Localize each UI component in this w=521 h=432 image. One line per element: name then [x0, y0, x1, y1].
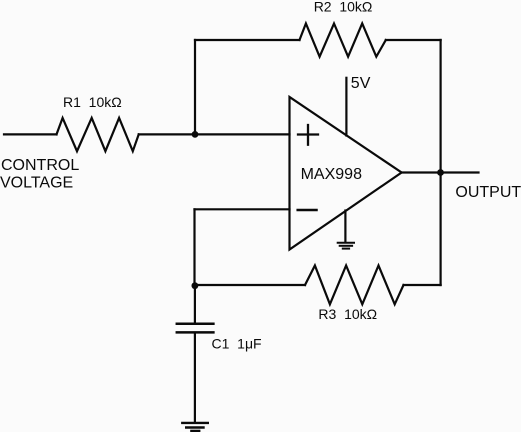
resistor R1 — [57, 118, 139, 151]
wire: left corner down to node C (C1/R3 junction) — [193, 209, 195, 285]
wire: C1 bottom plate to ground — [194, 334, 196, 423]
junction dot: output node — [437, 169, 444, 176]
svg-text:MAX998: MAX998 — [301, 166, 362, 183]
wire: inverting input to left corner — [195, 208, 290, 210]
junction dot: node C (C1 / R3) — [192, 282, 199, 289]
svg-text:R1 10kΩ: R1 10kΩ — [63, 94, 122, 110]
op-amp U1 MAX998 triangle — [290, 97, 402, 250]
wire: R1 to op-amp non-inverting input (node IN+) — [139, 133, 290, 135]
wire: node IN+ up to feedback rail — [194, 40, 196, 134]
minus sign: inverting input marker — [298, 209, 317, 212]
wire: control-voltage input to R1 — [4, 133, 57, 135]
wire: node C down to capacitor C1 — [194, 286, 196, 323]
capacitor C1 plates — [177, 324, 214, 333]
wire: node C to R3 — [195, 284, 306, 286]
wire: right vertical rail (output net) — [440, 40, 442, 285]
svg-text:R2 10kΩ: R2 10kΩ — [314, 0, 373, 14]
svg-text:5V: 5V — [351, 75, 371, 92]
svg-text:OUTPUT: OUTPUT — [455, 184, 521, 201]
wire: op-amp V- pin to ground — [344, 211, 346, 243]
resistor R2 — [300, 24, 386, 57]
svg-text:R3 10kΩ: R3 10kΩ — [318, 306, 377, 322]
resistor R3 — [305, 266, 404, 305]
plus sign: non-inverting input marker — [298, 125, 318, 145]
junction dot: node IN+ (R1 / R2 feedback) — [192, 131, 199, 138]
wire: op-amp output to output junction — [402, 171, 479, 173]
wire: R3 to right vertical rail — [404, 284, 441, 286]
wire: R2 to right vertical rail — [386, 39, 441, 41]
svg-text:VOLTAGE: VOLTAGE — [0, 175, 73, 192]
ground: op-amp ground symbol — [338, 243, 354, 249]
svg-text:CONTROL: CONTROL — [1, 157, 79, 174]
svg-text:C1 1μF: C1 1μF — [212, 335, 262, 351]
wire: top feedback rail left segment — [195, 39, 300, 41]
ground: bottom ground symbol — [182, 423, 208, 431]
wire: 5V supply to op-amp V+ pin — [345, 78, 347, 136]
